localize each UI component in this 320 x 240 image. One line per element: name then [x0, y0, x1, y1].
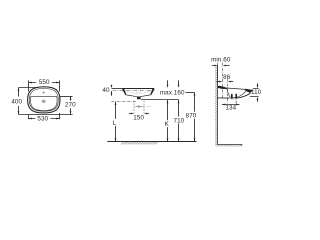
svg-text:max.160: max.160 — [160, 90, 185, 97]
svg-text:270: 270 — [65, 102, 76, 109]
svg-text:530: 530 — [37, 115, 48, 122]
svg-text:min.60: min.60 — [211, 57, 231, 64]
svg-text:870: 870 — [186, 112, 197, 119]
svg-text:86: 86 — [223, 74, 231, 81]
svg-text:550: 550 — [39, 79, 50, 86]
svg-text:110: 110 — [251, 89, 262, 96]
svg-text:134: 134 — [225, 105, 236, 112]
svg-text:400: 400 — [11, 98, 22, 105]
svg-text:40: 40 — [102, 87, 110, 94]
svg-text:L: L — [113, 120, 117, 127]
svg-text:150: 150 — [133, 115, 144, 122]
svg-text:710: 710 — [174, 117, 185, 124]
svg-text:K: K — [165, 121, 170, 128]
